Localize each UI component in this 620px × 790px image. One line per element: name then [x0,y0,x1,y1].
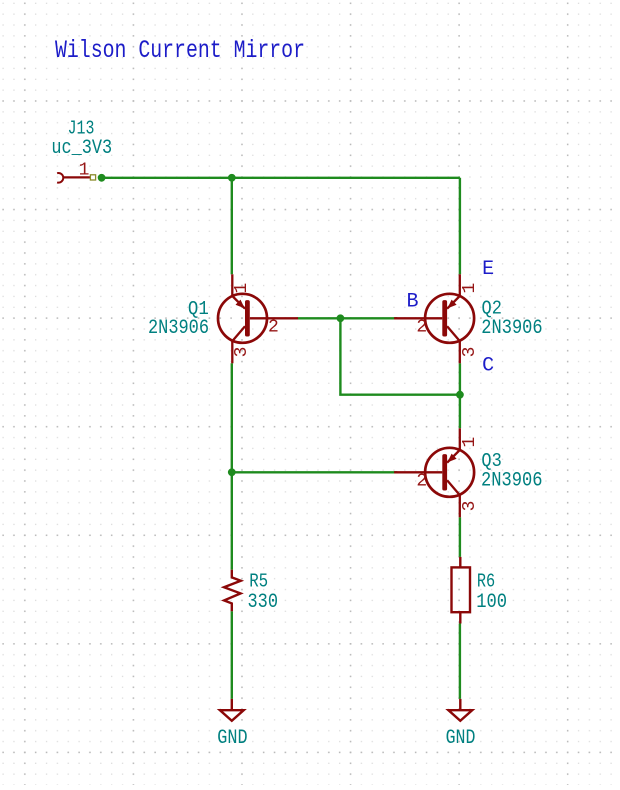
svg-text:GND: GND [446,727,476,750]
svg-text:100: 100 [476,591,507,614]
svg-text:R6: R6 [477,570,495,592]
svg-text:B: B [407,290,419,313]
svg-text:1: 1 [460,283,480,294]
svg-text:E: E [482,258,494,281]
svg-text:C: C [482,354,494,377]
svg-text:R5: R5 [249,570,268,592]
svg-text:uc_3V3: uc_3V3 [51,137,112,160]
svg-text:2: 2 [416,471,427,491]
svg-text:2N3906: 2N3906 [481,470,543,493]
svg-text:1: 1 [232,283,252,294]
svg-text:GND: GND [217,727,247,750]
svg-text:2N3906: 2N3906 [481,317,542,340]
svg-text:2: 2 [268,317,279,337]
svg-text:1: 1 [460,437,480,448]
svg-text:3: 3 [460,501,480,512]
svg-text:Wilson Current Mirror: Wilson Current Mirror [55,36,305,65]
svg-text:330: 330 [248,591,279,614]
svg-text:1: 1 [79,160,90,180]
svg-text:2N3906: 2N3906 [148,317,209,340]
svg-text:3: 3 [232,347,252,358]
svg-text:3: 3 [460,347,480,358]
svg-text:2: 2 [416,317,427,337]
